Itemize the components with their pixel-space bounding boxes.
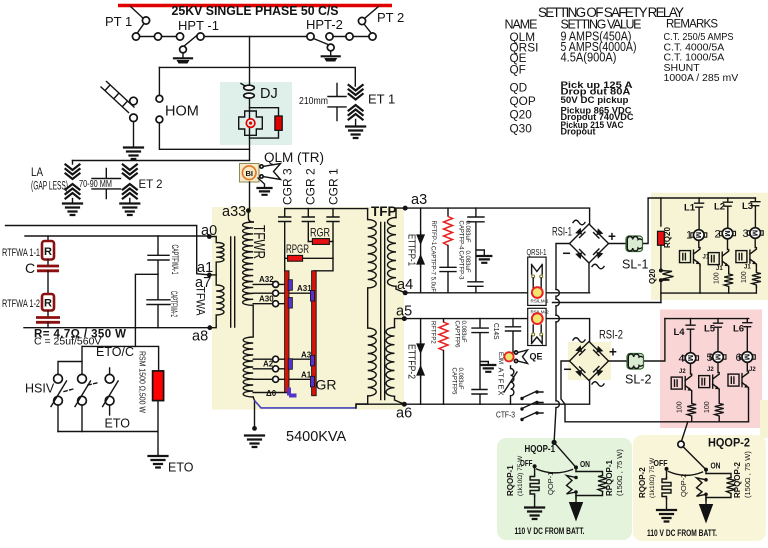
svg-text:QD: QD	[510, 81, 528, 95]
svg-text:0.083uF: 0.083uF	[464, 251, 470, 273]
svg-text:RSM 1500 Ω,500 W: RSM 1500 Ω,500 W	[138, 351, 148, 413]
svg-text:Q20: Q20	[510, 108, 533, 122]
svg-text:CAPTFWA-1: CAPTFWA-1	[170, 245, 180, 275]
svg-text:TFWR: TFWR	[250, 225, 267, 259]
svg-text:RSI-1: RSI-1	[552, 227, 572, 239]
svg-text:CAPTFP-4: CAPTFP-4	[458, 221, 464, 251]
svg-text:210mm: 210mm	[299, 95, 328, 107]
svg-text:HSIV: HSIV	[25, 382, 55, 396]
svg-text:A32: A32	[259, 275, 274, 284]
svg-text:QRSI-1: QRSI-1	[527, 247, 547, 257]
svg-text:CTF-3: CTF-3	[496, 410, 515, 420]
svg-text:RPQOP-1: RPQOP-1	[605, 459, 614, 496]
svg-text:CAPTFWA-2: CAPTFWA-2	[169, 291, 179, 317]
svg-text:DJ: DJ	[260, 86, 278, 102]
svg-text:6: 6	[736, 352, 742, 364]
svg-text:Dropout: Dropout	[561, 127, 596, 137]
svg-text:110 V DC FROM BATT.: 110 V DC FROM BATT.	[515, 526, 585, 537]
svg-text:a1: a1	[197, 260, 213, 276]
svg-text:CAPTFP-7 5.0uF: CAPTFP-7 5.0uF	[430, 246, 436, 292]
svg-text:RQOP-2: RQOP-2	[638, 467, 647, 498]
svg-text:J1: J1	[744, 265, 751, 271]
svg-text:RFTFP2: RFTFP2	[430, 321, 436, 344]
svg-text:GR: GR	[316, 377, 337, 393]
svg-text:J1: J1	[716, 266, 723, 272]
svg-text:Δ0: Δ0	[266, 389, 277, 398]
svg-text:RPQOP-2: RPQOP-2	[733, 461, 742, 498]
svg-text:QOP: QOP	[510, 94, 536, 108]
svg-text:a8: a8	[192, 329, 208, 345]
svg-text:25KV SINGLE PHASE 50 C/S: 25KV SINGLE PHASE 50 C/S	[172, 3, 339, 18]
svg-text:110 V DC FROM BATT.: 110 V DC FROM BATT.	[647, 528, 717, 539]
svg-text:a3: a3	[411, 192, 427, 208]
svg-text:HQOP-1: HQOP-1	[525, 444, 556, 455]
svg-text:RPGR: RPGR	[286, 242, 309, 256]
svg-text:HQOP-2: HQOP-2	[708, 436, 750, 450]
svg-text:J2: J2	[679, 369, 686, 375]
svg-text:RGR: RGR	[310, 226, 330, 240]
svg-text:A31: A31	[297, 284, 312, 293]
svg-text:TFWA: TFWA	[194, 287, 208, 316]
svg-text:(1k10Ω) 75 W: (1k10Ω) 75 W	[517, 455, 524, 496]
svg-text:ON: ON	[711, 461, 721, 471]
svg-text:CGR 2: CGR 2	[304, 168, 318, 205]
svg-text:CAPTFP6: CAPTFP6	[454, 321, 460, 349]
svg-text:QOP-2: QOP-2	[679, 474, 688, 497]
svg-text:J2: J2	[707, 367, 714, 373]
svg-text:J2: J2	[749, 367, 756, 373]
svg-text:ETTFP-2: ETTFP-2	[405, 344, 416, 379]
svg-text:RQOP-1: RQOP-1	[506, 465, 515, 496]
svg-text:QF: QF	[510, 63, 526, 77]
svg-text:(GAP LESS): (GAP LESS)	[31, 181, 68, 193]
svg-text:ON: ON	[580, 459, 590, 469]
svg-text:R: R	[44, 246, 52, 258]
svg-text:HPT -1: HPT -1	[178, 18, 219, 33]
svg-text:L2: L2	[714, 202, 725, 213]
svg-text:C: C	[25, 260, 35, 276]
svg-text:QLM (TR): QLM (TR)	[264, 150, 324, 165]
svg-text:RFTFP-1: RFTFP-1	[430, 221, 436, 246]
svg-text:RQ20: RQ20	[663, 227, 672, 248]
svg-text:EJM: EJM	[497, 352, 503, 364]
svg-text:(150Ω , 75 W): (150Ω , 75 W)	[615, 449, 624, 496]
svg-text:CAPTFP-3: CAPTFP-3	[458, 251, 464, 281]
svg-text:100: 100	[714, 272, 721, 284]
svg-text:RTFWA 1-2: RTFWA 1-2	[2, 298, 40, 310]
svg-text:HOM: HOM	[165, 104, 199, 120]
svg-text:RTFWA 1-1: RTFWA 1-1	[2, 247, 40, 259]
svg-text:PT 2: PT 2	[377, 10, 404, 25]
svg-text:−: −	[563, 245, 571, 261]
svg-text:100: 100	[704, 401, 711, 413]
svg-text:Q30: Q30	[510, 122, 533, 136]
svg-text:RSILM-1: RSILM-1	[531, 299, 550, 304]
svg-text:QOP-1: QOP-1	[546, 472, 555, 495]
svg-text:100: 100	[741, 271, 748, 283]
svg-text:(1k10Ω) 75 W: (1k10Ω) 75 W	[649, 457, 656, 498]
svg-text:PT 1: PT 1	[105, 14, 132, 29]
svg-text:4: 4	[679, 353, 685, 365]
svg-text:L6: L6	[733, 324, 744, 335]
svg-text:L3: L3	[742, 201, 753, 212]
svg-text:CAPTFP5: CAPTFP5	[451, 368, 457, 396]
svg-text:50V DC pickup: 50V DC pickup	[561, 95, 630, 105]
svg-text:ETO: ETO	[168, 461, 194, 475]
svg-text:ETTFP-1: ETTFP-1	[405, 234, 416, 266]
svg-text:L1: L1	[684, 203, 696, 214]
svg-text:BI: BI	[245, 169, 253, 178]
svg-text:a33: a33	[222, 204, 246, 220]
svg-text:A30: A30	[259, 295, 274, 304]
svg-text:CGR 3: CGR 3	[281, 168, 295, 205]
svg-text:L5: L5	[704, 324, 716, 335]
svg-text:L4: L4	[674, 327, 686, 338]
svg-text:SL-1: SL-1	[622, 258, 648, 272]
svg-text:(150Ω , 75 W): (150Ω , 75 W)	[743, 451, 752, 498]
svg-text:0.083uF: 0.083uF	[464, 221, 470, 243]
svg-text:100: 100	[677, 401, 684, 413]
svg-text:A2: A2	[263, 360, 274, 369]
svg-text:+: +	[608, 229, 616, 244]
svg-text:QE: QE	[530, 352, 543, 363]
svg-text:SL-2: SL-2	[625, 373, 651, 387]
svg-text:+: +	[609, 345, 617, 360]
svg-text:ET 1: ET 1	[368, 92, 395, 107]
svg-text:R: R	[44, 298, 52, 310]
svg-text:0.083uF: 0.083uF	[460, 321, 466, 343]
svg-text:Q20: Q20	[648, 268, 657, 284]
svg-text:a6: a6	[396, 406, 412, 422]
svg-text:REMARKS: REMARKS	[666, 19, 718, 31]
svg-text:LA: LA	[31, 167, 43, 179]
svg-text:TFP: TFP	[371, 204, 397, 219]
svg-text:4.5A(900A): 4.5A(900A)	[561, 51, 617, 65]
svg-text:C14S: C14S	[492, 323, 499, 340]
svg-text:HPT-2: HPT-2	[306, 17, 343, 32]
svg-text:ET 2: ET 2	[139, 179, 163, 191]
svg-text:ATFEX: ATFEX	[496, 368, 505, 396]
svg-text:−: −	[564, 361, 572, 377]
svg-text:0.083uF: 0.083uF	[457, 368, 463, 390]
svg-text:1000A / 285 mV: 1000A / 285 mV	[664, 72, 739, 84]
svg-text:RSI-2: RSI-2	[599, 330, 623, 342]
svg-text:5400KVA: 5400KVA	[286, 429, 347, 445]
svg-text:CGR 1: CGR 1	[327, 168, 341, 205]
svg-text:ETO: ETO	[105, 417, 131, 431]
